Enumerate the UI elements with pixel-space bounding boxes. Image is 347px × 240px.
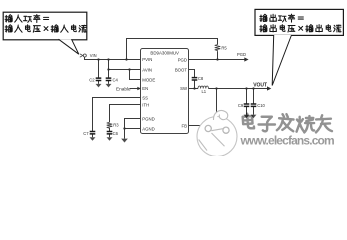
svg-text:C8: C8 (198, 76, 204, 81)
capacitor C9 (244, 104, 250, 106)
svg-text:BD9A300MUV: BD9A300MUV (150, 50, 179, 55)
wire C2 branch (98, 60, 100, 79)
node junction C10/VOUT (252, 87, 254, 89)
svg-text:R5: R5 (221, 45, 227, 50)
ground PGND/AGND (121, 139, 127, 143)
text line: 输入电压×输入电流 (5, 25, 86, 32)
wire PGD out (189, 59, 245, 61)
callout bubble left: input power note (3, 12, 87, 54)
junction dots (97, 58, 254, 129)
svg-text:Enable: Enable (116, 86, 131, 91)
resistor R3 (107, 122, 113, 128)
inductor L1 (198, 86, 208, 89)
wire SS to C7 (93, 98, 141, 132)
node junction C2/VIN (97, 58, 99, 60)
arrow Enable into EN (137, 87, 141, 91)
text line: 输出电压×输出电流 (260, 25, 341, 32)
svg-text:C4: C4 (113, 78, 119, 83)
ground below C6 (107, 137, 112, 140)
svg-text:PGND: PGND (142, 117, 154, 122)
wire C8 to SW (194, 80, 196, 88)
node junction R5 riser/VIN (125, 58, 127, 60)
wire R3 to C6 (109, 128, 111, 132)
svg-text:C6: C6 (113, 131, 119, 136)
watermark text 电子发烧友 (242, 113, 331, 132)
ground below C9 (244, 115, 249, 118)
ground below C10 (251, 115, 256, 118)
wire C6 stub to ground (109, 134, 111, 137)
svg-text:R3: R3 (113, 122, 119, 127)
capacitor C4 (106, 78, 112, 80)
wire C7 stub to ground (92, 134, 94, 137)
svg-text:VIN: VIN (90, 53, 97, 58)
wire C10 stub to ground (253, 107, 255, 115)
svg-text:L1: L1 (201, 89, 206, 94)
wire C9 stub to ground (246, 107, 248, 115)
svg-text:ITH: ITH (142, 103, 149, 108)
wire VIN bus to PVIN (85, 57, 141, 60)
node junction MODE tap (128, 68, 130, 70)
wire ITH to R3 (110, 105, 141, 123)
svg-text:PGD: PGD (237, 52, 246, 57)
wire FB riser from VOUT node (216, 89, 218, 126)
wire C9 branch (246, 89, 248, 104)
svg-text:AVIN: AVIN (142, 67, 152, 72)
svg-text:PVIN: PVIN (142, 57, 152, 62)
capacitor C8 (192, 78, 198, 80)
terminal VIN input port (80, 54, 87, 57)
capacitor C2 (96, 78, 102, 80)
ground below C7 (90, 137, 95, 140)
wire Enable to EN (130, 88, 138, 90)
white background (0, 0, 347, 156)
svg-text:FB: FB (182, 124, 188, 129)
svg-text:BOOT: BOOT (175, 68, 188, 73)
text line: 输出功率= (260, 14, 304, 22)
wire SW to L1 (189, 88, 199, 90)
callout bubble right: output power note (255, 9, 343, 85)
svg-text:VOUT: VOUT (253, 82, 267, 88)
op-amp/regulator IC U1 BD9A300MUV body (141, 49, 189, 134)
arrow PGD output (244, 57, 248, 61)
wire C4 stub to ground (108, 81, 110, 84)
wire C2 stub to ground (98, 81, 100, 84)
wire C10 branch (253, 89, 255, 104)
wire FB to chip (189, 125, 217, 127)
ground below C2 (96, 84, 101, 87)
svg-text:SS: SS (142, 95, 148, 100)
wire L1 to VOUT arrow (208, 88, 267, 90)
wire R5 bottom to PGD junction (217, 51, 219, 59)
wire C4 branch (108, 60, 110, 79)
wire AGND (125, 128, 141, 130)
svg-text:MODE: MODE (142, 78, 155, 83)
svg-text:C9: C9 (238, 103, 244, 108)
node junction C4-AVIN/VIN (107, 58, 109, 60)
watermark logo elecfans (197, 111, 237, 157)
svg-text:EN: EN (142, 86, 148, 91)
node junction AVIN tap (107, 68, 109, 70)
wire BOOT to C8 (189, 70, 195, 78)
node junction FB riser/VOUT (215, 87, 217, 89)
wire MODE tie from AVIN (130, 70, 141, 80)
capacitor C6 (107, 132, 113, 134)
wire top pull-up run from VIN bus to R5 (127, 39, 218, 60)
svg-text:C2: C2 (89, 78, 95, 83)
svg-text:PGD: PGD (178, 57, 187, 62)
arrow VOUT output (267, 86, 271, 90)
svg-text:SW: SW (180, 86, 188, 91)
resistor R5 (215, 45, 221, 52)
wire AVIN (109, 69, 141, 71)
node junction C9/VOUT (245, 87, 247, 89)
svg-text:C10: C10 (257, 103, 265, 108)
svg-text:AGND: AGND (142, 126, 154, 131)
ground below C4 (106, 84, 111, 87)
svg-text:C7: C7 (83, 131, 89, 136)
text line: 输入功率= (5, 15, 49, 23)
node junction R5/PGD (216, 58, 218, 60)
wire PGND loop (125, 119, 141, 139)
node junction AGND/PGND (123, 127, 125, 129)
capacitor C7 (90, 132, 96, 134)
svg-text:www.elecfans.com: www.elecfans.com (240, 134, 335, 148)
capacitor C10 (251, 104, 257, 106)
node junction C8/SW (193, 87, 195, 89)
